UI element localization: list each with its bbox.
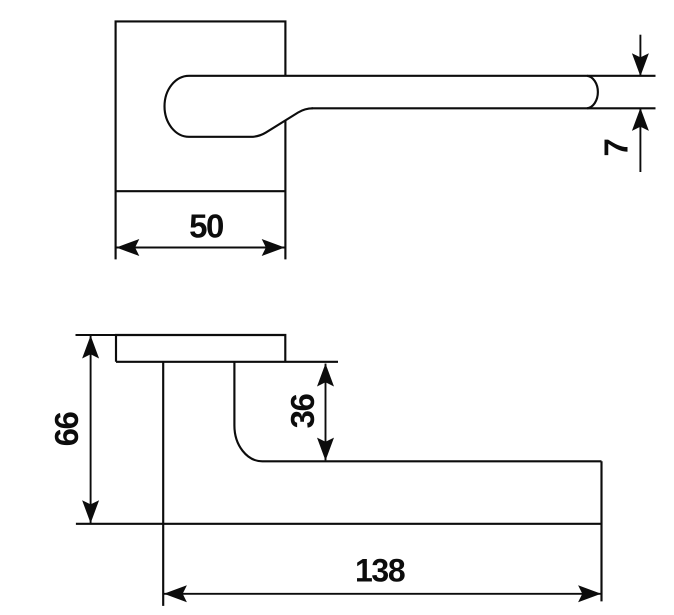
- rose plate side profile: left edge, top edge, right edge: [116, 335, 285, 362]
- rose square: left extension + left edge + top edge + right edge (upper visible part): [116, 21, 286, 259]
- svg-text:36: 36: [284, 394, 321, 429]
- lever bottom edge + left extension for dim 66: [76, 523, 602, 525]
- arrowhead dim 138 right: [578, 585, 601, 602]
- dim 36: dimension line: [325, 364, 327, 461]
- rose square bottom edge: [116, 190, 286, 192]
- svg-text:7: 7: [598, 138, 635, 156]
- dim 50: dimension line: [116, 247, 284, 249]
- arrowhead dim 7 down: [632, 53, 649, 76]
- arrowhead dim 66 down: [82, 500, 99, 523]
- arrowhead dim 36 down: [317, 438, 334, 461]
- dim 138: dimension line: [164, 593, 601, 595]
- arrowhead dim 66 up: [82, 336, 99, 359]
- lever shaft bottom edge + right extension line: [312, 107, 656, 109]
- arrowhead dim 7 up: [632, 108, 649, 131]
- arrowhead dim 138 left: [164, 585, 187, 602]
- svg-text:138: 138: [355, 552, 405, 588]
- dim 66: top extension line: [76, 334, 117, 336]
- lever handle top edge + right extension line: [189, 75, 656, 77]
- arrowhead dim 36 up: [317, 364, 334, 387]
- rose square right edge (lower visible part) + extension down: [284, 121, 286, 260]
- dim 7: lower leader line: [639, 108, 641, 172]
- dim 7: upper leader line: [639, 35, 641, 76]
- arrowhead dim 50 right: [262, 239, 285, 256]
- svg-text:50: 50: [189, 208, 223, 245]
- lever right end edge + extension down for dim 138: [600, 461, 602, 601]
- svg-text:66: 66: [48, 412, 85, 447]
- dim 66: dimension line: [90, 336, 92, 523]
- rose plate bottom line + right extension for dim 36: [116, 361, 338, 363]
- handle neck left edge + extension down for dim 138: [162, 362, 164, 606]
- handle neck right edge, inner curve, lever top edge: [234, 362, 601, 462]
- arrowhead dim 50 left: [116, 239, 139, 256]
- lever grip: left rounded cap, bottom edge, diagonal transition: [165, 76, 313, 137]
- lever right end cap: [587, 76, 598, 109]
